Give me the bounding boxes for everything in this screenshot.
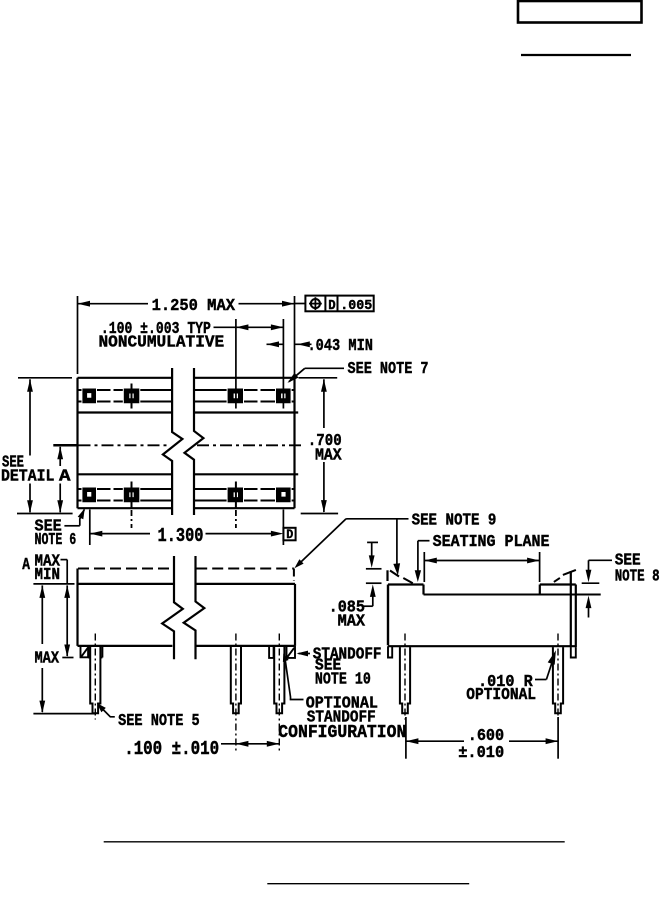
svg-text:1.300: 1.300 <box>158 525 204 547</box>
svg-text:D: D <box>328 298 335 314</box>
centerline dash-dot <box>53 444 301 447</box>
svg-text:.600: .600 <box>468 727 505 746</box>
front body outline <box>78 569 296 646</box>
side pin left <box>400 647 410 713</box>
contact squares bottom row <box>83 488 290 502</box>
feature control frame position D .005 <box>295 296 374 314</box>
svg-text:NOTE 10: NOTE 10 <box>315 670 371 689</box>
break line right (front view) <box>184 556 205 659</box>
dimension .600 ±.010 <box>406 717 558 763</box>
standoff tab left <box>81 646 89 657</box>
svg-text:MIN: MIN <box>35 566 61 585</box>
svg-text:DETAIL: DETAIL <box>1 468 54 487</box>
contact rails top row <box>78 390 295 402</box>
svg-text:NOTE 6: NOTE 6 <box>35 531 77 550</box>
svg-text:SEE NOTE 5: SEE NOTE 5 <box>118 712 200 731</box>
title underline <box>521 54 631 56</box>
pin stems through squares <box>132 319 284 528</box>
svg-text:.043 MIN: .043 MIN <box>308 337 374 356</box>
standoff tab corner-right <box>287 646 296 658</box>
leader SEE NOTE 5 <box>97 703 200 731</box>
title block box <box>518 1 642 23</box>
svg-text:A: A <box>22 556 30 575</box>
leader OPTIONAL STANDOFF CONFIGURATION <box>278 654 406 744</box>
svg-text:SEE NOTE 7: SEE NOTE 7 <box>348 360 429 379</box>
svg-text:1.250 MAX: 1.250 MAX <box>152 297 236 316</box>
dimension .043 MIN <box>267 337 374 356</box>
side pin right <box>553 647 563 713</box>
dimension 1.300 <box>90 510 284 547</box>
svg-text:A: A <box>59 468 71 487</box>
A MAX MIN labels and dimension <box>22 553 74 658</box>
dashed max-height line <box>78 569 294 582</box>
leader SEE NOTE 7 <box>288 360 429 383</box>
leader SEE NOTE 8 <box>582 551 660 617</box>
dimension 1.250 MAX <box>78 296 295 374</box>
svg-text:NONCUMULATIVE: NONCUMULATIVE <box>99 334 225 353</box>
break line left (top view) <box>163 368 183 515</box>
seating plane extent arrows <box>424 552 539 582</box>
svg-text:.005: .005 <box>340 298 372 314</box>
side body outline <box>388 571 601 647</box>
left corner stub and chamfer <box>388 570 413 583</box>
svg-text:SEE NOTE 9: SEE NOTE 9 <box>412 512 497 531</box>
svg-text:D: D <box>286 527 293 542</box>
standoff tab right (side) <box>571 647 576 657</box>
leader SEE NOTE 9 <box>294 512 496 576</box>
svg-text:SEATING PLANE: SEATING PLANE <box>433 533 550 552</box>
connector body outline (top view) <box>78 378 299 508</box>
dimension .085 MAX <box>329 542 382 631</box>
front pin 1 <box>90 646 100 713</box>
standoff tab mid-right <box>269 646 274 658</box>
svg-text:CONFIGURATION: CONFIGURATION <box>278 722 406 743</box>
right chamfer (optional, dashed) <box>554 570 576 582</box>
svg-text:MAX: MAX <box>35 650 60 669</box>
datum D box <box>283 527 295 542</box>
front pin 2 <box>231 646 241 713</box>
svg-text:.100 ±.010: .100 ±.010 <box>124 738 219 760</box>
svg-text:MAX: MAX <box>315 446 342 465</box>
footer rule 2 <box>267 883 469 885</box>
footer rule 1 <box>104 841 565 843</box>
break line right (top view) <box>185 368 204 515</box>
svg-text:MAX: MAX <box>338 613 366 632</box>
contact rails bottom row <box>78 489 295 501</box>
svg-text:±.010: ±.010 <box>458 744 504 763</box>
SEATING PLANE label <box>415 533 550 582</box>
front pin 3 <box>274 646 284 713</box>
svg-text:OPTIONAL: OPTIONAL <box>466 686 536 705</box>
MAX pin-length dimension <box>33 585 95 713</box>
left height dimensions (top view) <box>1 378 73 514</box>
contact squares top row <box>83 389 290 403</box>
standoff tab left (side) <box>388 646 392 657</box>
dimension .100 ±.010 <box>124 738 279 760</box>
leader SEE NOTE 6 <box>35 508 85 550</box>
svg-text:NOTE 8: NOTE 8 <box>615 567 660 586</box>
dimension .700 MAX <box>299 378 343 514</box>
dimension .100 ±.003 TYP NONCUMULATIVE <box>99 320 284 352</box>
break line left (front view) <box>162 556 183 659</box>
leader .010 R OPTIONAL <box>466 650 556 705</box>
leader STANDOFF SEE NOTE 10 <box>297 646 382 690</box>
